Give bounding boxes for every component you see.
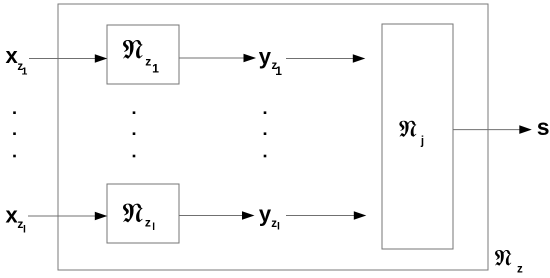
svg-text:1: 1 <box>22 66 28 78</box>
arrowhead into N_zl <box>95 212 108 221</box>
wire x_z1 to N_z1 <box>29 58 97 60</box>
svg-text:l: l <box>152 222 155 233</box>
svg-text:y: y <box>259 201 272 226</box>
fraktur N in box N_j <box>399 121 416 137</box>
svg-text:l: l <box>23 223 26 235</box>
wire y_z1 to N_j <box>286 58 355 60</box>
svg-text:z: z <box>145 55 151 69</box>
combiner box N_j <box>382 24 453 249</box>
wire x_zl to N_zl <box>28 215 97 217</box>
arrowhead at y_zl <box>242 211 255 220</box>
dots column 2 row 1 <box>133 111 136 114</box>
dots column 2 row 3 <box>133 155 136 158</box>
dots column 1 row 1 <box>13 111 16 114</box>
svg-text:y: y <box>259 44 272 69</box>
wire N_z1 to y_z1 <box>179 57 245 59</box>
dots column 3 row 3 <box>264 155 267 158</box>
outer system box N_z <box>58 4 488 270</box>
subnet box N_z1 (top) <box>107 25 179 84</box>
arrowhead toward N_j (top) <box>353 54 366 63</box>
svg-text:1: 1 <box>152 62 159 76</box>
dots column 1 row 2 <box>13 132 16 135</box>
dots column 2 row 2 <box>133 132 136 135</box>
arrowhead toward N_j (bottom) <box>354 211 367 220</box>
dots column 1 row 3 <box>13 155 16 158</box>
arrowhead at y_z1 <box>244 54 257 63</box>
svg-text:s: s <box>537 114 550 140</box>
svg-text:1: 1 <box>275 64 282 78</box>
fraktur N label N_z (bottom right) <box>495 250 511 266</box>
arrowhead at s <box>519 125 532 134</box>
wire N_j to s <box>453 129 522 131</box>
fraktur N in box N_zl <box>123 204 143 223</box>
fraktur N in box N_z1 <box>123 40 143 59</box>
dots column 3 row 2 <box>264 132 267 135</box>
wire N_zl to y_zl <box>179 215 244 217</box>
dots column 3 row 1 <box>264 111 267 114</box>
svg-text:j: j <box>420 136 424 148</box>
svg-text:z: z <box>145 215 151 229</box>
svg-text:l: l <box>277 220 280 232</box>
subnet box N_zl (bottom) <box>107 184 179 243</box>
arrowhead into N_z1 <box>95 54 108 63</box>
wire y_zl to N_j <box>286 215 356 217</box>
svg-text:z: z <box>517 263 523 275</box>
